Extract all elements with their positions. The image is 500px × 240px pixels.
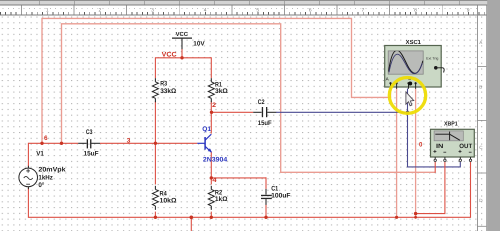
svg-text:9: 9	[467, 7, 470, 13]
svg-text:XSC1: XSC1	[406, 39, 422, 46]
svg-text:1: 1	[46, 7, 49, 13]
svg-text:4: 4	[204, 7, 207, 13]
svg-text:XBP1: XBP1	[444, 121, 458, 128]
svg-text:B: B	[479, 84, 482, 89]
svg-text:0°: 0°	[38, 182, 44, 189]
svg-text:6: 6	[44, 135, 48, 142]
svg-text:5: 5	[256, 7, 259, 13]
svg-text:V1: V1	[36, 150, 44, 157]
svg-text:4: 4	[212, 177, 217, 184]
svg-text:10V: 10V	[193, 40, 205, 47]
svg-text:R3: R3	[160, 81, 167, 88]
svg-text:3: 3	[127, 137, 131, 144]
svg-text:15uF: 15uF	[258, 120, 272, 127]
svg-text:2: 2	[212, 102, 216, 109]
svg-text:3: 3	[151, 7, 154, 13]
svg-text:7: 7	[362, 7, 365, 13]
svg-text:2: 2	[99, 7, 102, 13]
svg-text:33kΩ: 33kΩ	[160, 88, 177, 95]
svg-text:VCC: VCC	[162, 51, 177, 58]
svg-text:C2: C2	[258, 99, 265, 106]
svg-text:OUT: OUT	[459, 143, 472, 150]
svg-text:1kΩ: 1kΩ	[215, 196, 228, 203]
svg-text:3kΩ: 3kΩ	[215, 88, 229, 95]
svg-text:Q1: Q1	[202, 126, 211, 133]
svg-text:8: 8	[414, 7, 417, 13]
svg-text:1kHz: 1kHz	[38, 175, 53, 182]
svg-text:100uF: 100uF	[271, 192, 290, 199]
svg-text:0: 0	[419, 141, 423, 148]
svg-text:C3: C3	[86, 129, 93, 136]
svg-text:6: 6	[309, 7, 312, 13]
svg-text:VCC: VCC	[176, 31, 189, 38]
svg-text:15uF: 15uF	[84, 150, 99, 157]
svg-text:10kΩ: 10kΩ	[160, 197, 178, 204]
svg-text:Ext Trig: Ext Trig	[426, 57, 438, 61]
svg-text:2N3904: 2N3904	[203, 156, 228, 163]
svg-text:R4: R4	[160, 190, 167, 197]
svg-text:IN: IN	[436, 143, 444, 150]
svg-text:20mVpk: 20mVpk	[38, 167, 66, 174]
